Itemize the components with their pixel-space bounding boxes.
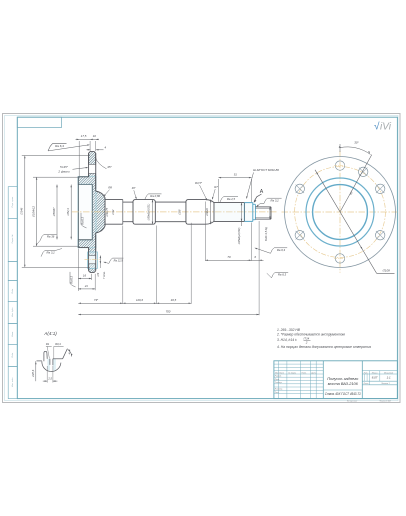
svg-text:R7: R7 bbox=[132, 186, 136, 190]
svg-text:8,07: 8,07 bbox=[372, 376, 378, 380]
bottom hole dims bbox=[77, 249, 79, 292]
seat dia dim d25k6 bbox=[241, 203, 243, 226]
radial dim line (d108) bbox=[315, 170, 377, 273]
svg-text:∅32: ∅32 bbox=[111, 209, 115, 215]
svg-text:R7: R7 bbox=[214, 185, 218, 189]
svg-text:17,5: 17,5 bbox=[81, 134, 87, 138]
roughness Ra6,3 rotated in pocket bbox=[81, 213, 87, 228]
svg-text:Справ. №: Справ. № bbox=[11, 234, 14, 244]
svg-text:Лист: Лист bbox=[362, 383, 368, 385]
angular dim 30deg bbox=[339, 144, 341, 152]
radial line through 30deg hole bbox=[340, 155, 372, 212]
detail A chamfer + 45deg bbox=[63, 349, 68, 359]
main drawing frame bbox=[17, 117, 397, 398]
detail A width dim 2,5 bbox=[46, 366, 48, 383]
svg-text:∅28,6: ∅28,6 bbox=[31, 369, 35, 377]
bolt hole 30deg bbox=[359, 167, 368, 176]
svg-text:Подп.: Подп. bbox=[11, 352, 14, 358]
svg-text:А: А bbox=[260, 189, 264, 195]
svg-text:Ra 0,80: Ra 0,80 bbox=[150, 194, 160, 198]
svg-text:№ докум.: № докум. bbox=[288, 371, 297, 374]
svg-text:Масштаб: Масштаб bbox=[384, 372, 394, 374]
svg-text:Взам.: Взам. bbox=[12, 331, 14, 337]
svg-text:Т.контр.: Т.контр. bbox=[275, 382, 283, 384]
svg-text:5×45°: 5×45° bbox=[60, 165, 69, 169]
flange rim bottom bolt hole (teal highlighted) bbox=[88, 256, 96, 264]
svg-text:Подп.: Подп. bbox=[302, 371, 308, 374]
svg-text:Ra 6,3: Ra 6,3 bbox=[277, 248, 286, 252]
dim 17,5 top bbox=[79, 138, 90, 140]
svg-text:7 отв.: 7 отв. bbox=[102, 271, 106, 279]
svg-text:Инв. дубл.: Инв. дубл. bbox=[11, 307, 14, 317]
bolt hole 180deg bbox=[335, 254, 344, 263]
dim 51 bbox=[218, 179, 220, 202]
flange plate highlight box bbox=[78, 176, 96, 247]
hole d9 dim bbox=[99, 256, 101, 264]
bulge2 dia dim bbox=[210, 200, 212, 225]
svg-text:Н.контр.: Н.контр. bbox=[275, 389, 283, 391]
roughness Ra 3,2 at thread bbox=[257, 198, 282, 206]
dim 10 top bbox=[90, 138, 96, 140]
svg-text:51: 51 bbox=[234, 172, 238, 176]
svg-text:Дата: Дата bbox=[310, 372, 316, 374]
svg-text:30°: 30° bbox=[354, 141, 359, 145]
svg-text:Ra 6,3: Ra 6,3 bbox=[81, 216, 85, 224]
detail A teal patches bbox=[47, 359, 50, 371]
svg-text:700: 700 bbox=[166, 309, 171, 313]
svg-text:Ra 6,3: Ra 6,3 bbox=[55, 144, 64, 148]
roughness Ra 12,5 at hole bbox=[109, 258, 124, 263]
svg-text:∅108: ∅108 bbox=[382, 269, 390, 273]
svg-text:Ra 2,5: Ra 2,5 bbox=[227, 197, 236, 201]
roughness Ra6,3 top-left bbox=[48, 144, 67, 151]
svg-text:1. 269...302 НВ: 1. 269...302 НВ bbox=[277, 328, 301, 332]
bolt hole -60deg bbox=[295, 184, 304, 193]
svg-text:∅146: ∅146 bbox=[20, 207, 24, 215]
bolt hole 0deg bbox=[335, 161, 344, 170]
svg-text:R1: R1 bbox=[46, 342, 50, 346]
svg-text:Утв.: Утв. bbox=[275, 392, 280, 394]
svg-text:Ra 36: Ra 36 bbox=[47, 235, 55, 239]
bulge 2 bbox=[186, 200, 214, 225]
svg-text:Лит.: Лит. bbox=[363, 372, 369, 374]
svg-text:∅9: ∅9 bbox=[96, 272, 100, 276]
svg-text:R3,5*: R3,5* bbox=[195, 181, 203, 185]
svg-text:Ra 3,2: Ra 3,2 bbox=[46, 251, 55, 255]
svg-text:Формат A3: Формат A3 bbox=[379, 399, 391, 402]
detail A dia dim bbox=[35, 361, 37, 381]
dim D1 flange OD bbox=[22, 155, 90, 157]
svg-text:моста ВАЗ-2106: моста ВАЗ-2106 bbox=[328, 381, 359, 386]
svg-text:Копировал: Копировал bbox=[347, 400, 358, 402]
end view centerlines bbox=[339, 151, 341, 273]
inner teal circle 2 bbox=[313, 185, 368, 240]
svg-text:Масса: Масса bbox=[372, 372, 378, 374]
roughness Rz36 bottom-left bbox=[40, 234, 57, 240]
svg-text:Пров.: Пров. bbox=[275, 379, 280, 381]
inner teal circle 1 bbox=[306, 178, 374, 246]
svg-text:R0,4: R0,4 bbox=[55, 342, 61, 346]
svg-text:45°: 45° bbox=[107, 165, 112, 169]
svg-text:40,5: 40,5 bbox=[171, 298, 177, 302]
svg-text:2: 2 bbox=[305, 341, 308, 345]
pocket outline (recess in flange) bbox=[78, 183, 92, 185]
sheet outer gray border bbox=[3, 114, 401, 403]
bottom dim rows bbox=[122, 226, 124, 304]
svg-text:∅30к6(+0,021): ∅30к6(+0,021) bbox=[148, 203, 151, 220]
svg-text:А(4:1): А(4:1) bbox=[43, 331, 57, 336]
roughness Ra 6,3 lower-right bbox=[272, 272, 289, 278]
svg-text:∅82,4: ∅82,4 bbox=[66, 208, 70, 216]
detail A profile bbox=[37, 360, 42, 362]
svg-text:126,6: 126,6 bbox=[136, 298, 143, 302]
dim D3 pocket bbox=[56, 185, 58, 240]
svg-text:∅30,75: ∅30,75 bbox=[105, 207, 109, 216]
dim D2 bbox=[33, 176, 79, 178]
svg-text:√iVi: √iVi bbox=[374, 121, 392, 133]
boss face bbox=[104, 198, 106, 226]
svg-text:21: 21 bbox=[84, 284, 89, 288]
bolt hole centerline bbox=[85, 259, 101, 261]
svg-text:Сталь 40Х ГОСТ 4543-71: Сталь 40Х ГОСТ 4543-71 bbox=[325, 392, 361, 396]
bulge1 dia dim bbox=[152, 200, 154, 225]
svg-text:Листов 1: Листов 1 bbox=[380, 383, 389, 385]
svg-text:Разраб.: Разраб. bbox=[275, 376, 282, 378]
svg-text:Ra 6,3: Ra 6,3 bbox=[70, 275, 74, 283]
svg-text:∅104h12: ∅104h12 bbox=[31, 206, 35, 218]
dim 4 bbox=[87, 149, 91, 151]
svg-text:Подп.: Подп. bbox=[11, 288, 14, 294]
svg-text:4. На торцах детали допускаютс: 4. На торцах детали допускаются центровы… bbox=[277, 345, 371, 349]
svg-text:70: 70 bbox=[227, 255, 231, 259]
svg-text:Ra 6,3: Ra 6,3 bbox=[278, 273, 287, 277]
svg-text:Инв. подл.: Инв. подл. bbox=[11, 377, 14, 387]
spline/bearing seat highlight bbox=[214, 203, 253, 222]
roughness Ra 0,80 bbox=[145, 194, 162, 200]
neck 1 bbox=[123, 201, 133, 203]
shaft segment A (d32) bbox=[105, 199, 123, 201]
thread dia dim M20 bbox=[269, 207, 271, 219]
svg-text:2 фаски: 2 фаски bbox=[57, 170, 70, 174]
svg-text:1:1: 1:1 bbox=[387, 376, 391, 380]
neck 2 bbox=[155, 201, 186, 203]
bearing seat bbox=[214, 202, 244, 204]
svg-text:Перв. прим.: Перв. прим. bbox=[12, 196, 14, 208]
bolt hole 60deg bbox=[375, 184, 384, 193]
bulge 1 (d30k6) bbox=[133, 200, 155, 225]
svg-text:∅80М7: ∅80М7 bbox=[52, 207, 56, 217]
shaft axis centerline bbox=[72, 211, 278, 213]
dim 70 and 6 bbox=[204, 202, 206, 261]
roughness Ra 2,5 bbox=[220, 197, 238, 203]
roughness Ra 3,2 bottom-left bbox=[41, 250, 56, 256]
svg-text:2,5: 2,5 bbox=[47, 376, 52, 380]
top-left designation box bbox=[17, 117, 61, 127]
svg-text:10: 10 bbox=[93, 134, 97, 138]
svg-text:3. H14, h14 ±: 3. H14, h14 ± bbox=[277, 338, 297, 342]
flange rim top bolt hole bbox=[88, 164, 96, 173]
circlip groove bbox=[253, 203, 256, 205]
svg-text:∅28: ∅28 bbox=[177, 209, 181, 215]
dim D4 bbox=[70, 185, 72, 240]
svg-text:Ш-6/ГОСТ 6033-80: Ш-6/ГОСТ 6033-80 bbox=[253, 168, 279, 172]
outer flange circle bbox=[285, 157, 396, 268]
svg-text:16: 16 bbox=[83, 273, 87, 277]
bolt circle (orange) bbox=[295, 167, 386, 258]
title block bbox=[274, 361, 398, 399]
bolt hole 120deg bbox=[375, 231, 384, 240]
svg-text:Ra 3,2: Ra 3,2 bbox=[270, 199, 279, 203]
svg-text:∅25к6(+0,002): ∅25к6(+0,002) bbox=[238, 227, 241, 244]
svg-text:М20×1,5-6g: М20×1,5-6g bbox=[264, 226, 268, 240]
bolt hole -120deg bbox=[295, 231, 304, 240]
svg-text:2. *Размер обеспечивается инст: 2. *Размер обеспечивается инструментом bbox=[276, 332, 346, 336]
roughness Ra 6,3 mid-right bbox=[271, 248, 288, 254]
svg-text:R8: R8 bbox=[108, 186, 112, 190]
roughness Ra6,3 rotated on ext line bbox=[70, 272, 76, 287]
svg-text:Изм Лист: Изм Лист bbox=[275, 372, 284, 374]
threaded end M20 bbox=[255, 206, 271, 208]
overall length 700 bbox=[78, 314, 259, 316]
sheet thin teal border bbox=[5, 115, 398, 400]
left margin column boxes bbox=[8, 187, 17, 219]
svg-text:Ra 12,5: Ra 12,5 bbox=[114, 258, 124, 262]
spline section (teal) bbox=[243, 203, 245, 222]
